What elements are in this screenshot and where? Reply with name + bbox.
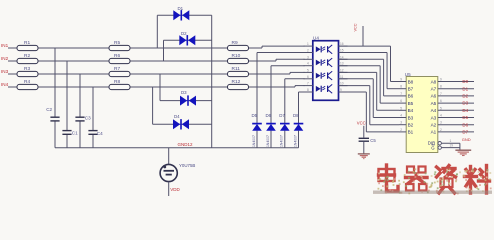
svg-text:D2: D2 xyxy=(181,31,187,36)
svg-text:8: 8 xyxy=(440,85,442,89)
resistor R12 xyxy=(228,79,249,90)
svg-text:7: 7 xyxy=(400,92,402,96)
wire U4 left pin 5 xyxy=(304,68,313,72)
diode D7 1N4007 xyxy=(279,113,289,147)
wire U4 left pin 7 xyxy=(304,82,313,86)
node VCC top xyxy=(354,23,363,46)
svg-text:B2: B2 xyxy=(408,123,414,128)
wire U5 right pin A3 to D5 xyxy=(438,114,474,118)
svg-text:B7: B7 xyxy=(408,87,414,92)
svg-text:1N4007: 1N4007 xyxy=(293,135,297,147)
transistor opto channel 2 glyph xyxy=(316,58,332,67)
svg-text:9: 9 xyxy=(340,88,342,92)
svg-text:1: 1 xyxy=(307,42,309,46)
wire U4 pin 15 to U5 pin B7 xyxy=(339,53,400,89)
wire row 2 (IN2 net horizontal) xyxy=(8,59,305,61)
svg-text:A2: A2 xyxy=(431,123,437,128)
svg-text:IN4: IN4 xyxy=(1,82,9,87)
svg-text:D2: D2 xyxy=(462,94,468,99)
svg-text:7: 7 xyxy=(440,92,442,96)
svg-text:A8: A8 xyxy=(431,79,437,84)
svg-text:VCC: VCC xyxy=(354,23,358,31)
wire row 1 (IN1 net horizontal) xyxy=(8,46,305,48)
svg-text:5: 5 xyxy=(400,106,402,110)
svg-text:B8: B8 xyxy=(408,79,414,84)
svg-text:R12: R12 xyxy=(232,79,241,85)
transistor opto channel 3 glyph xyxy=(316,71,332,80)
wire U4 left pin 4 xyxy=(304,62,313,66)
svg-text:A5: A5 xyxy=(431,101,437,106)
diode D1 (bidirectional suppressor) xyxy=(173,6,189,20)
svg-text:D7: D7 xyxy=(279,113,285,118)
wire U4 right pin 11 xyxy=(339,75,348,79)
svg-text:3: 3 xyxy=(440,121,442,125)
wire U5 left pin B1 xyxy=(399,128,406,132)
wire U4 pin 16 to U5 pin B8 xyxy=(339,46,400,81)
wire U4 right pin 16 xyxy=(339,42,348,46)
svg-text:R1: R1 xyxy=(24,40,30,46)
capacitor C4 xyxy=(88,131,103,137)
resistor R2 xyxy=(17,53,38,64)
svg-text:R6: R6 xyxy=(114,53,120,59)
resistor R11 xyxy=(228,66,249,77)
diode D4 (bidirectional suppressor) xyxy=(173,114,189,130)
svg-text:R5: R5 xyxy=(114,40,120,46)
wire U4 left pin 2 xyxy=(304,49,313,53)
svg-text:7: 7 xyxy=(307,82,309,86)
svg-text:Y0U75B: Y0U75B xyxy=(179,163,195,168)
wire U4 pin 12 to U5 pin B4 xyxy=(339,72,400,110)
svg-text:5: 5 xyxy=(440,106,442,110)
svg-text:C5: C5 xyxy=(370,138,376,143)
wire U5 left pin B3 xyxy=(399,114,406,118)
svg-text:VCC: VCC xyxy=(357,121,366,126)
resistor R8 xyxy=(109,79,130,90)
wire U4 pin 10 to U5 pin B2 xyxy=(339,86,400,125)
wire U4 left pin 8 xyxy=(304,88,313,92)
resistor R4 xyxy=(17,79,38,90)
svg-text:8: 8 xyxy=(307,88,309,92)
svg-text:IN2: IN2 xyxy=(1,56,9,61)
resistor R9 xyxy=(228,40,249,51)
svg-text:13: 13 xyxy=(340,62,344,66)
diode D5 1N4007 xyxy=(252,113,262,147)
svg-text:D4: D4 xyxy=(462,108,468,113)
capacitor C1 xyxy=(62,131,78,136)
resistor R6 xyxy=(109,53,130,64)
svg-text:D1: D1 xyxy=(462,86,468,91)
svg-text:U4: U4 xyxy=(313,36,319,41)
wire U4 right pin 10 xyxy=(339,82,348,86)
svg-text:B5: B5 xyxy=(408,101,414,106)
resistor R3 xyxy=(17,66,38,77)
svg-text:D3: D3 xyxy=(462,101,468,106)
wire diode D7 branch (rail to opto pin 6) xyxy=(285,79,305,148)
wire U5 left pin B7 xyxy=(399,85,406,89)
wire U4 right pin 13 xyxy=(339,62,348,66)
svg-text:1N4007: 1N4007 xyxy=(280,135,284,147)
wire diode D6 branch (rail to opto pin 4) xyxy=(271,66,305,148)
svg-text:A7: A7 xyxy=(431,87,437,92)
svg-text:9: 9 xyxy=(440,78,442,82)
wire U4 pin 13 to U5 pin B5 xyxy=(339,66,400,103)
svg-text:GND: GND xyxy=(462,137,471,142)
svg-text:R7: R7 xyxy=(114,66,120,72)
wire U4 left pin 3 xyxy=(304,55,313,59)
wire U4 left pin 6 xyxy=(304,75,313,79)
svg-text:R11: R11 xyxy=(232,66,241,72)
wire loop D4 (row4 to ground vertical) xyxy=(153,87,212,124)
svg-text:D5: D5 xyxy=(252,113,258,118)
svg-text:B1: B1 xyxy=(408,130,414,135)
wire row 3 (IN3 net horizontal) xyxy=(8,72,305,74)
svg-text:C3: C3 xyxy=(85,116,91,121)
svg-text:D3: D3 xyxy=(181,90,187,95)
svg-text:C1: C1 xyxy=(72,131,78,136)
wire row 4 (IN4 net horizontal) xyxy=(8,86,305,87)
capacitor C5 xyxy=(359,138,377,143)
svg-text:5: 5 xyxy=(307,68,309,72)
svg-text:15: 15 xyxy=(340,49,344,53)
svg-text:IN3: IN3 xyxy=(1,69,9,74)
wire U5 right pin A5 to D3 xyxy=(438,99,474,103)
resistor R7 xyxy=(109,66,130,77)
op-amp U5 74HC245 box xyxy=(405,72,438,153)
svg-text:C2: C2 xyxy=(46,107,52,112)
wire loop D1 (row1 to ground vertical) xyxy=(157,15,211,48)
battery B1 Y0U75B xyxy=(160,163,195,182)
wire U5 right pin A6 to D2 xyxy=(438,92,474,96)
wire diode D8 branch (rail to opto pin 8) xyxy=(299,92,305,148)
wire U5 right pin A2 to D6 xyxy=(438,121,474,125)
wire rail to battery xyxy=(168,148,170,165)
wire diode D5 branch (rail to opto pin 2) xyxy=(257,53,305,148)
diode D8 1N4007 xyxy=(293,113,303,147)
wire tap row2 to C1 xyxy=(66,61,68,148)
svg-text:R3: R3 xyxy=(24,66,30,72)
svg-text:16: 16 xyxy=(340,42,344,46)
wire U5 right pin A8 to D0 xyxy=(438,78,474,82)
svg-text:B4: B4 xyxy=(408,108,414,113)
diode D3 (bidirectional suppressor) xyxy=(180,90,196,106)
svg-text:2: 2 xyxy=(440,128,442,132)
svg-text:2: 2 xyxy=(400,128,402,132)
diode D2 (bidirectional suppressor) xyxy=(179,31,195,46)
wire DIR pin to ground (with inverting bubble) xyxy=(438,139,460,145)
wire VCC to C5 xyxy=(363,126,365,138)
ground (below C5) xyxy=(358,154,370,159)
svg-text:1N4007: 1N4007 xyxy=(266,135,270,147)
svg-text:D1: D1 xyxy=(178,6,184,11)
resistor R10 xyxy=(228,53,249,64)
svg-text:D6: D6 xyxy=(266,113,272,118)
wire U4 right pin 9 xyxy=(339,88,348,92)
svg-text:1: 1 xyxy=(450,139,452,143)
svg-text:C4: C4 xyxy=(97,131,103,136)
svg-text:VDD: VDD xyxy=(170,187,180,192)
svg-text:11: 11 xyxy=(340,75,344,79)
wire battery to VDD xyxy=(168,182,170,196)
svg-text:D7: D7 xyxy=(462,130,468,135)
svg-text:R10: R10 xyxy=(232,53,241,59)
wire tap row1 to C2 xyxy=(54,48,56,148)
svg-text:IN1: IN1 xyxy=(1,43,9,48)
svg-text:R8: R8 xyxy=(114,79,120,85)
svg-text:D6: D6 xyxy=(462,122,468,127)
svg-text:GND12: GND12 xyxy=(178,142,194,147)
svg-text:A1: A1 xyxy=(431,130,437,135)
svg-text:6: 6 xyxy=(440,99,442,103)
svg-text:D8: D8 xyxy=(293,113,299,118)
svg-text:4: 4 xyxy=(307,62,309,66)
svg-text:A4: A4 xyxy=(431,108,437,113)
svg-text:9: 9 xyxy=(400,78,402,82)
svg-text:2: 2 xyxy=(307,49,309,53)
transistor opto channel 4 glyph xyxy=(316,84,332,93)
wire U4 right pin 14 xyxy=(339,55,348,59)
svg-text:6: 6 xyxy=(400,99,402,103)
diode D6 1N4007 xyxy=(266,113,276,147)
svg-text:4: 4 xyxy=(400,114,402,118)
wire U4 pin 9 to U5 pin B1 xyxy=(339,92,400,132)
wire tap row4 to C4 xyxy=(92,87,94,148)
capacitor C2 xyxy=(46,107,59,121)
node pin name G (enable) xyxy=(431,145,435,151)
ground (below U5 control pins) xyxy=(455,150,471,155)
wire U5 left pin B8 xyxy=(399,78,406,82)
svg-text:D5: D5 xyxy=(462,115,468,120)
svg-text:8: 8 xyxy=(400,85,402,89)
wire U4 pin 14 to U5 pin B6 xyxy=(339,59,400,96)
wire U5 left pin B6 xyxy=(399,92,406,96)
wire C5 to ground xyxy=(363,142,365,154)
svg-text:R9: R9 xyxy=(232,40,238,46)
wire U4 right pin 15 xyxy=(339,49,348,53)
wire U5 right pin A1 to D7 xyxy=(438,128,474,132)
wire U4 pin 11 to U5 pin B3 xyxy=(339,79,400,118)
svg-text:B6: B6 xyxy=(408,94,414,99)
svg-text:D0: D0 xyxy=(462,79,468,84)
svg-text:B3: B3 xyxy=(408,115,414,120)
svg-text:3: 3 xyxy=(307,55,309,59)
wire U4 right pin 12 xyxy=(339,68,348,72)
wire U5 right pin A7 to D1 xyxy=(438,85,474,89)
svg-text:3: 3 xyxy=(400,121,402,125)
wire U5 left pin B2 xyxy=(399,121,406,125)
wire U4 left pin 1 xyxy=(304,42,313,46)
wire U5 left pin B5 xyxy=(399,99,406,103)
op-amp U4 optocoupler array box xyxy=(313,36,339,101)
svg-text:4: 4 xyxy=(440,114,442,118)
wire G pin to ground (with inverting bubble) xyxy=(438,143,460,150)
svg-text:1N4007: 1N4007 xyxy=(252,135,256,147)
resistor R1 xyxy=(17,40,38,51)
wire U5 left pin B4 xyxy=(399,106,406,110)
decorative speckle fill of watermark xyxy=(378,168,492,194)
wire loop D3 (row3 to ground vertical) xyxy=(160,74,212,101)
resistor R5 xyxy=(109,40,130,51)
svg-text:R4: R4 xyxy=(24,79,30,85)
wire diac common vertical to ground rail xyxy=(211,15,213,147)
watermark 电器资料 (red chinese characters) xyxy=(379,165,490,193)
svg-text:12: 12 xyxy=(340,68,344,72)
wire ground rail GND12 xyxy=(55,147,299,149)
svg-text:U5: U5 xyxy=(405,72,411,77)
svg-text:19: 19 xyxy=(450,144,454,148)
svg-text:6: 6 xyxy=(307,75,309,79)
svg-text:A3: A3 xyxy=(431,115,437,120)
svg-text:10: 10 xyxy=(340,82,344,86)
transistor opto channel 1 glyph xyxy=(316,45,332,54)
wire U5 right pin A4 to D4 xyxy=(438,106,474,110)
svg-text:R2: R2 xyxy=(24,53,30,59)
svg-text:A6: A6 xyxy=(431,94,437,99)
capacitor C3 xyxy=(75,116,91,121)
svg-text:14: 14 xyxy=(340,55,344,59)
svg-text:D4: D4 xyxy=(174,114,180,119)
wire loop D2 (row2 to ground vertical) xyxy=(164,40,212,61)
wire tap row3 to C3 xyxy=(79,74,81,148)
